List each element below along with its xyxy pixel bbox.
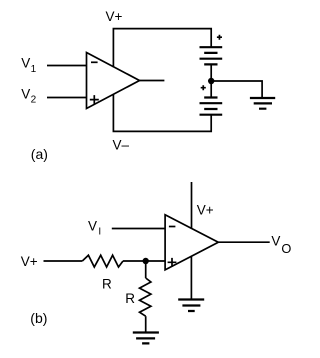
wire V2 input xyxy=(47,97,87,99)
svg-text:1: 1 xyxy=(31,64,37,75)
resistor R2 xyxy=(140,278,151,316)
op-amp U2 xyxy=(165,215,218,270)
wire V+ to resistor R1 xyxy=(44,260,83,262)
op-amp U2 non-inverting input marker xyxy=(168,258,177,267)
svg-text:R: R xyxy=(125,291,135,306)
wire V- rail (a) xyxy=(113,94,211,131)
wire VI input xyxy=(112,228,165,230)
svg-text:(a): (a) xyxy=(31,146,48,162)
wire B1 to midpoint junction xyxy=(210,64,212,81)
svg-text:I: I xyxy=(98,226,101,237)
wire junction to resistor R2 xyxy=(145,261,147,278)
wire V+ rail (a) xyxy=(113,29,211,68)
svg-text:V: V xyxy=(21,86,30,101)
svg-text:O: O xyxy=(281,241,291,256)
wire R1 to non-inverting input xyxy=(123,260,165,262)
svg-text:V: V xyxy=(21,55,30,70)
battery B1 xyxy=(200,47,223,64)
svg-text:2: 2 xyxy=(31,95,37,106)
svg-text:V+: V+ xyxy=(197,203,214,218)
battery B2 xyxy=(200,98,223,115)
ground (a) xyxy=(250,98,275,109)
junction node (b) xyxy=(143,258,149,264)
op-amp U2 inverting input marker xyxy=(169,226,176,228)
svg-text:R: R xyxy=(102,276,112,291)
wire R2 to ground xyxy=(145,316,147,332)
op-amp U1 inverting input marker xyxy=(91,61,98,63)
op-amp U1 non-inverting input marker xyxy=(90,95,99,104)
svg-text:V–: V– xyxy=(113,138,130,153)
ground (b, bottom of R2) xyxy=(133,333,159,344)
op-amp U1 xyxy=(87,53,140,109)
ground (b, op-amp) xyxy=(178,300,204,312)
wire U2 ground pin xyxy=(190,256,192,299)
wire V1 input xyxy=(47,65,87,67)
wire U2 output xyxy=(218,241,269,243)
resistor R1 xyxy=(82,255,123,267)
svg-text:V+: V+ xyxy=(21,254,38,269)
battery B2 plus polarity mark xyxy=(201,85,206,90)
battery B1 plus polarity mark xyxy=(217,35,222,40)
wire V+ supply (b) xyxy=(191,182,193,229)
svg-text:V+: V+ xyxy=(106,9,123,24)
wire junction to B2 xyxy=(210,81,212,98)
svg-text:V: V xyxy=(271,233,280,248)
wire junction to ground (a) xyxy=(211,81,262,98)
junction node supply midpoint xyxy=(208,78,214,84)
wire U1 output stub xyxy=(140,80,165,82)
svg-text:(b): (b) xyxy=(30,310,47,326)
svg-text:V: V xyxy=(88,218,97,233)
